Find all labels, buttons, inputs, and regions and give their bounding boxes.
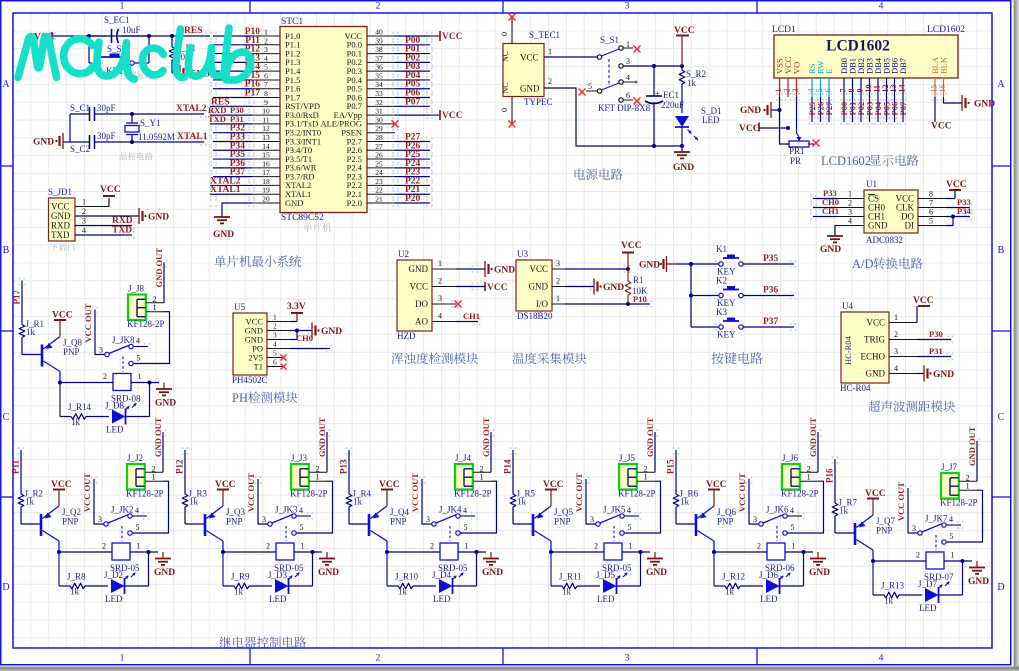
svg-text:A/D: A/D [852,257,874,271]
net labels P32-P37 MCU [213,124,252,178]
net label RXD P30 MCU pin10 [208,105,252,115]
svg-text:1k: 1k [234,587,244,597]
ground crystal GND [33,133,63,149]
no-ERC mark S_TEC1 top [509,14,516,21]
svg-text:VCC: VCC [442,32,463,42]
svg-text:DS18B20: DS18B20 [517,311,553,321]
window edge bottom [0,667,1019,671]
net label P15 [666,450,677,494]
svg-text:PH4502C: PH4502C [232,375,268,385]
svg-text:U4: U4 [842,301,853,311]
svg-text:1: 1 [792,542,796,551]
svg-text:J_J2: J_J2 [127,453,143,463]
svg-text:5: 5 [791,523,795,532]
svg-text:LED: LED [106,425,124,435]
svg-text:2: 2 [548,77,552,86]
net labels P00-P07 MCU right [395,36,430,108]
svg-text:J_R11: J_R11 [559,572,582,582]
svg-text:KF128-2P: KF128-2P [290,489,328,499]
net label RES MCU pin9 [210,97,252,107]
svg-text:23: 23 [375,177,383,186]
caption chao sheng bo ce ju mo kuai [868,401,955,413]
svg-text:3: 3 [82,217,86,226]
svg-text:GND: GND [494,266,515,276]
svg-text:PNP: PNP [876,526,893,536]
svg-text:2: 2 [556,277,560,286]
no-ERC mark U2 DO [455,301,462,308]
wire LCD BLK GND [944,97,963,103]
svg-text:14: 14 [262,142,270,151]
wire VCC to RES net [52,34,210,38]
svg-text:GND: GND [820,245,841,255]
caption wen du cai ji mo kuai [513,352,587,364]
svg-text:27: 27 [375,142,383,151]
svg-text:GND: GND [321,327,342,337]
resistor J_R8 1k [59,552,108,597]
svg-text:3: 3 [753,515,757,524]
capacitor S_EC1 [89,15,149,43]
ground keys GND bracket [639,256,675,272]
svg-text:3: 3 [262,515,266,524]
svg-text:PR: PR [790,156,801,166]
svg-text:U3: U3 [517,249,528,259]
svg-text:2: 2 [848,199,852,208]
connector S_JD1 [48,187,109,241]
svg-text:4: 4 [894,364,898,373]
relay switch J_JK8 [99,335,148,372]
svg-text:1: 1 [966,481,970,491]
svg-text:T1: T1 [254,362,263,372]
svg-text:220uF: 220uF [661,100,684,110]
crystal S_Y1 [125,114,175,142]
svg-text:P20: P20 [405,194,421,204]
svg-text:28: 28 [375,133,383,142]
svg-text:VCC: VCC [931,122,952,132]
net label P10 U3 [633,294,647,304]
LED J_D5 [596,552,641,604]
svg-text:1: 1 [137,542,141,551]
net label GND OUT J_J2 [153,417,163,472]
capacitor S_C2 [70,131,116,154]
relay coil J_JK8 SRD-08 [58,372,159,411]
temperature sensor U3 DS18B20 [516,249,565,321]
svg-text:NC: NC [501,82,510,93]
net labels P27-P20 MCU right [395,132,430,204]
no-ERC mark MCU pin30 [392,120,399,127]
svg-text:S_C1: S_C1 [70,103,90,113]
svg-text:3: 3 [590,515,594,524]
svg-text:J_Q8: J_Q8 [63,338,83,348]
svg-text:J_R8: J_R8 [67,572,86,582]
svg-text:GND OUT: GND OUT [481,417,491,457]
svg-text:E: E [824,69,834,74]
svg-text:4: 4 [82,226,86,235]
svg-text:1k: 1k [353,497,363,507]
svg-text:VCC: VCC [487,283,508,293]
turbidity sensor U2 HZD [397,249,456,341]
svg-text:S_S1: S_S1 [600,35,619,45]
svg-text:D: D [997,582,1004,593]
net label GND OUT J_J5 [645,417,655,472]
wire XTAL2 net [95,112,205,116]
svg-text:5: 5 [137,354,141,363]
resistor J_R7 1k [832,498,857,534]
capacitor S_C1 [70,103,116,121]
svg-text:KF128-2P: KF128-2P [940,498,978,508]
caption dan pian ji [303,223,331,232]
no-ERC mark U5 T1 [281,364,287,370]
svg-text:3: 3 [264,45,268,54]
net label P12 [175,450,186,494]
svg-text:VCC: VCC [946,180,967,190]
svg-text:RES: RES [184,26,202,36]
svg-text:J_R14: J_R14 [68,402,92,412]
svg-text:VCC OUT: VCC OUT [83,303,93,342]
svg-text:30pF: 30pF [97,103,116,113]
power flag VCC U2 [456,282,508,293]
transistor J_Q3 PNP [205,506,246,552]
relay switch J_JK2 [98,505,147,542]
PH sensor U5 PH4502C [232,302,290,385]
svg-text:U5: U5 [234,302,245,312]
ground ADC GND [820,226,843,256]
svg-text:P07: P07 [405,97,421,107]
net label TXD P31 MCU pin11 [208,114,252,124]
svg-text:1: 1 [556,294,560,303]
resistor J_R9 1k [223,552,272,597]
transistor J_Q8 PNP [42,337,83,383]
svg-text:KEY: KEY [717,330,736,340]
svg-text:12: 12 [262,124,270,133]
svg-text:P31: P31 [929,346,943,356]
svg-text:4: 4 [463,506,467,515]
svg-text:GND: GND [809,568,830,578]
svg-text:ADC0832: ADC0832 [866,235,903,245]
svg-text:3: 3 [556,259,560,268]
resistor J_R5 1k [510,489,535,525]
caption hun zhuo du jian ce mo kuai [392,352,479,364]
svg-text:2: 2 [916,551,920,560]
svg-text:P14: P14 [503,459,513,474]
net label XTAL1 MCU pin19 [210,185,252,195]
power flag VCC J_Q6 [706,480,727,506]
net label CH1 ADC [813,206,839,217]
caption an jian dian lu [711,352,762,364]
svg-text:RXD: RXD [112,216,133,226]
caption PH jian ce mo kuai [232,391,298,405]
svg-text:40: 40 [375,28,383,37]
ground SRD-05 GND [482,552,503,578]
resistor R1 10K [625,269,648,306]
svg-text:18: 18 [262,177,270,186]
svg-text:3.3V: 3.3V [287,302,306,312]
net label P14 [503,450,514,494]
svg-text:LED: LED [702,115,720,125]
svg-text:10uF: 10uF [122,25,141,35]
net label CH1 U2 AO [456,311,480,322]
power flag 3.3V U5 [287,302,306,322]
caption dan pian ji zui xiao xi tong [214,255,301,267]
svg-text:1k: 1k [839,506,849,516]
svg-text:GND OUT: GND OUT [645,417,655,457]
svg-text:1k: 1k [70,587,80,597]
svg-text:19: 19 [262,186,270,195]
svg-text:3: 3 [99,346,103,355]
svg-text:3: 3 [848,208,852,217]
net label P33 ADC CLK [946,197,971,208]
svg-text:XTAL2: XTAL2 [176,104,207,114]
svg-text:39: 39 [375,36,383,45]
svg-text:VCC: VCC [442,111,463,121]
svg-text:1: 1 [152,472,156,482]
svg-text:U1: U1 [866,179,877,189]
svg-text:STC1: STC1 [281,17,303,27]
svg-text:10: 10 [262,107,270,116]
svg-text:1: 1 [644,472,648,482]
svg-text:3: 3 [273,331,277,340]
svg-text:J_Q3: J_Q3 [226,507,246,517]
svg-text:P11: P11 [11,459,21,474]
svg-text:21: 21 [375,195,383,204]
svg-text:4: 4 [879,654,884,664]
power flag VCC ADC [946,180,967,199]
svg-text:J_Q5: J_Q5 [554,507,574,517]
net label P30 U4 [917,329,951,340]
connector J_J2 KF128-2P [126,453,164,499]
ground MCU GND [213,217,234,240]
svg-text:GND: GND [740,106,761,116]
svg-text:VCC: VCC [866,318,885,328]
capacitor EC1 220uF [645,66,684,146]
transistor J_Q5 PNP [533,506,574,552]
svg-text:5: 5 [929,217,933,226]
svg-text:B: B [3,245,10,256]
ADC U1 ADC0832 [837,179,946,245]
svg-text:J_JK2: J_JK2 [111,505,134,515]
wire MCU pin31 VCC [395,110,463,121]
net label GND OUT J_J6 [808,417,818,472]
wire J_J7 pin1 [946,490,982,542]
svg-text:J_D2: J_D2 [104,570,123,580]
svg-text:GND: GND [868,221,888,231]
svg-text:LCD1: LCD1 [772,25,796,35]
svg-text:XTAL1: XTAL1 [177,132,208,142]
svg-text:TRIG: TRIG [864,335,885,345]
svg-text:VCC OUT: VCC OUT [410,473,420,512]
svg-text:P35: P35 [763,254,779,264]
potentiometer PR1 [789,128,814,166]
svg-text:J_JK7: J_JK7 [925,514,948,524]
svg-text:S_Y1: S_Y1 [140,118,161,128]
ground LCD left GND bracket [740,102,780,118]
svg-text:1k: 1k [562,587,572,597]
svg-text:J_JK8: J_JK8 [112,335,135,345]
wire U3 VCC [565,267,630,271]
net label P13 [339,450,350,494]
svg-text:ECHO: ECHO [861,352,886,362]
red dot S_S1 pin4 [635,81,638,84]
net label GND OUT J_J7 [967,426,977,481]
svg-text:GND: GND [155,399,176,409]
ground LCD right GND bracket [962,95,995,111]
window edge right [1014,0,1019,671]
svg-text:GND: GND [933,370,954,380]
svg-text:11: 11 [262,115,269,124]
ground SRD-07 GND [968,561,989,587]
svg-text:J_R13: J_R13 [881,581,905,591]
svg-text:8: 8 [929,190,933,199]
svg-text:4: 4 [790,506,794,515]
no-ERC mark PR1 [813,140,820,147]
svg-text:PNP: PNP [717,517,734,527]
svg-text:GND: GND [673,163,694,173]
wire S_TEC1 VCC to switch [544,47,597,57]
svg-text:1: 1 [301,542,305,551]
svg-text:J_J4: J_J4 [455,453,472,463]
svg-text:PNP: PNP [63,347,80,357]
svg-text:1k: 1k [71,417,81,427]
svg-text:J_JK4: J_JK4 [439,505,462,515]
caption xia zai kou [50,243,74,251]
svg-text:K1: K1 [716,244,727,254]
svg-text:2: 2 [273,322,277,331]
svg-text:1: 1 [894,313,898,322]
svg-text:1: 1 [951,551,955,560]
svg-text:J_JK3: J_JK3 [275,505,298,515]
svg-text:VCC: VCC [529,264,548,274]
svg-text:KFT DIP-8X8: KFT DIP-8X8 [598,103,651,113]
svg-text:J_D6: J_D6 [759,570,779,580]
svg-text:1k: 1k [725,587,735,597]
relay coil J_JK3 SRD-05 [221,542,322,581]
svg-text:PR1: PR1 [789,146,805,156]
svg-text:5: 5 [273,349,277,358]
net label CH0 ADC [813,197,839,208]
svg-text:GND OUT: GND OUT [808,417,818,457]
svg-text:11.0592M: 11.0592M [138,132,175,142]
svg-text:1: 1 [120,654,125,664]
svg-text:2: 2 [438,277,442,286]
svg-text:J_J6: J_J6 [782,453,799,463]
svg-text:K2: K2 [716,276,727,286]
svg-text:P15: P15 [666,459,676,474]
power flag VCC J_Q5 [543,480,564,506]
svg-text:S_TEC1: S_TEC1 [529,30,560,40]
svg-text:3: 3 [98,515,102,524]
LED J_D6 [759,552,804,604]
svg-text:PNP: PNP [226,517,243,527]
svg-text:EC1: EC1 [663,90,679,100]
svg-text:PNP: PNP [62,517,79,527]
svg-text:30pF: 30pF [97,131,116,141]
svg-text:VCC OUT: VCC OUT [246,473,256,512]
svg-text:2: 2 [264,36,268,45]
svg-text:P27: P27 [824,101,834,115]
svg-text:VCC: VCC [520,53,539,63]
svg-text:GND OUT: GND OUT [317,417,327,457]
wire K1 P35 [743,254,794,264]
resistor J_R1 1k [19,319,44,355]
no-ERC mark S_S1 pin5 [579,89,586,96]
svg-text:33: 33 [375,89,383,98]
svg-text:S_EC1: S_EC1 [104,15,130,25]
svg-text:5: 5 [464,523,468,532]
svg-text:29: 29 [375,124,383,133]
svg-text:LCD1602: LCD1602 [927,25,965,35]
svg-text:J_JK6: J_JK6 [766,505,789,515]
caption an jian fu wei [120,71,152,79]
svg-text:22: 22 [375,186,383,195]
svg-text:1: 1 [316,472,320,482]
key K1 [691,244,743,277]
resistor J_R12 1k [714,552,763,597]
svg-text:P36: P36 [763,286,779,296]
svg-text:1k: 1k [398,587,408,597]
ground SRD-05 GND [646,552,667,578]
resistor J_R11 1k [551,552,600,597]
svg-text:2: 2 [102,542,106,551]
svg-text:4: 4 [135,506,139,515]
svg-text:J_D8: J_D8 [105,401,125,411]
svg-text:VCC: VCC [409,282,428,292]
svg-text:GND: GND [646,568,667,578]
net labels P00-P07 LCD [839,97,908,122]
svg-text:1k: 1k [189,497,199,507]
connector J_J8 KF128-2P [127,284,165,330]
svg-text:J_R12: J_R12 [722,572,745,582]
svg-text:5: 5 [300,523,304,532]
ultrasonic module U4 HC-R04 [840,301,917,393]
resistor J_R10 1k [387,552,436,597]
svg-text:TXD: TXD [112,226,132,236]
svg-text:GND: GND [529,282,549,292]
svg-text:BLK: BLK [939,56,949,74]
transistor J_Q7 PNP [855,515,896,561]
power flag VCC U4 [913,296,934,323]
net label VCC OUT J_Q8 [83,303,105,354]
svg-text:P07: P07 [898,101,908,115]
svg-text:4: 4 [879,2,884,12]
svg-text:1: 1 [465,542,469,551]
key K3 [691,307,743,340]
svg-text:1k: 1k [26,327,36,337]
svg-text:CH1: CH1 [822,206,839,216]
relay coil J_JK2 SRD-05 [57,542,158,581]
svg-text:PH: PH [232,391,248,405]
caption LCD1602 xian shi dian lu [821,154,919,168]
power flag VCC J_Q7 [865,489,886,515]
svg-text:B: B [998,245,1005,256]
svg-text:PNP: PNP [390,517,407,527]
relay coil J_JK4 SRD-05 [385,542,486,581]
ground U4 GND bracket [917,366,954,382]
svg-text:J_R10: J_R10 [395,572,419,582]
LED J_D2 [104,552,149,604]
svg-text:1: 1 [120,2,125,12]
svg-text:LED: LED [269,594,287,604]
svg-text:3: 3 [438,294,442,303]
wire J_J5 pin1 [624,481,660,533]
svg-text:GND OUT: GND OUT [967,426,977,466]
svg-text:3: 3 [625,2,630,12]
ground power GND [673,146,694,173]
net label CH0 U5 [290,333,330,349]
svg-text:VCC: VCC [739,124,760,134]
svg-text:13: 13 [262,133,270,142]
net label VCC OUT J_Q3 [246,473,268,524]
svg-text:4: 4 [299,506,303,515]
svg-text:R1: R1 [633,275,644,285]
